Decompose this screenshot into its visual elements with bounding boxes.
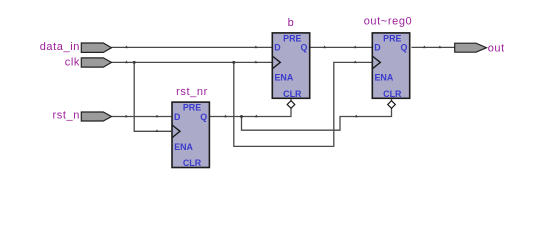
svg-text:CLR: CLR — [283, 89, 302, 99]
svg-text:out: out — [488, 42, 505, 54]
svg-text:Q: Q — [200, 112, 207, 122]
svg-text:D: D — [374, 43, 381, 53]
svg-text:ENA: ENA — [174, 142, 193, 152]
svg-text:ENA: ENA — [275, 73, 294, 83]
svg-text:out~reg0: out~reg0 — [364, 15, 413, 27]
svg-text:rst_nr: rst_nr — [176, 86, 208, 98]
svg-text:clk: clk — [65, 57, 80, 69]
svg-text:PRE: PRE — [383, 34, 401, 44]
svg-text:ENA: ENA — [375, 73, 394, 83]
svg-text:D: D — [174, 112, 181, 122]
svg-text:CLR: CLR — [383, 89, 402, 99]
svg-text:PRE: PRE — [183, 103, 201, 113]
svg-text:D: D — [274, 43, 281, 53]
svg-text:PRE: PRE — [283, 34, 301, 44]
svg-text:b: b — [288, 17, 295, 29]
svg-text:Q: Q — [300, 43, 307, 53]
svg-text:CLR: CLR — [183, 158, 202, 168]
svg-text:Q: Q — [400, 43, 407, 53]
svg-text:data_in: data_in — [40, 41, 80, 53]
svg-text:rst_n: rst_n — [53, 110, 80, 122]
